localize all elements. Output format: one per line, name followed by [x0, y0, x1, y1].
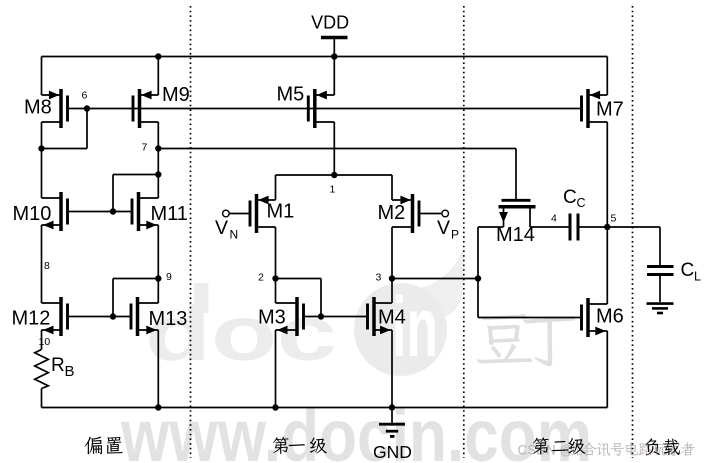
wire M12-M13 gate line — [68, 316, 132, 318]
transistor M5 — [308, 89, 334, 128]
wire node 2 line to mirror gates — [276, 278, 322, 280]
wire M6 source to bottom rail — [606, 331, 608, 408]
terminal VN — [215, 210, 250, 241]
svg-text:M14: M14 — [496, 224, 535, 246]
section label load — [645, 438, 680, 455]
wire node 5 to CL — [607, 226, 660, 228]
svg-text:1: 1 — [330, 184, 336, 196]
svg-text:M3: M3 — [258, 307, 286, 329]
svg-text:9: 9 — [166, 271, 172, 283]
wire right bias rail M9 source — [157, 57, 159, 96]
transistor M13 — [131, 297, 158, 336]
svg-text:M1: M1 — [267, 201, 295, 223]
ground GND — [373, 404, 412, 462]
transistor M7 — [582, 89, 608, 128]
svg-text:M2: M2 — [378, 202, 406, 224]
node 7 — [155, 145, 161, 151]
wire M6 gate line — [478, 317, 582, 319]
wire node 9 line M13 diode connection — [113, 278, 158, 280]
wire M14 source to node 3 junction — [478, 226, 504, 228]
svg-text:8: 8 — [44, 260, 50, 272]
wire M5 source stem — [333, 57, 335, 96]
transistor M4 — [368, 297, 393, 336]
wire CC to node 5 — [580, 226, 608, 228]
junction M8 drain — [38, 145, 44, 151]
wire M4 drain stem — [391, 279, 393, 304]
junction node 3 / M14 / M6 gate — [475, 275, 481, 281]
wire M7 source stem — [606, 57, 608, 96]
svg-text:V: V — [437, 217, 450, 239]
node 6 — [84, 105, 90, 111]
wire M3 source to bottom rail — [275, 330, 277, 408]
transistor M8 — [42, 89, 68, 128]
junction M3 source rail — [272, 404, 278, 410]
node 9 — [155, 275, 161, 281]
svg-text:5: 5 — [611, 213, 617, 225]
wire M5 drain to node 1 — [333, 122, 335, 175]
wire node 6 tap down — [86, 109, 88, 149]
wire left rail M8 drain to M10 — [41, 122, 43, 198]
svg-text:M8: M8 — [24, 97, 52, 119]
svg-text:2: 2 — [258, 272, 264, 284]
junction M3-M4 gates — [318, 313, 324, 319]
svg-text:M5: M5 — [277, 84, 305, 106]
wire node 7 line to M14 gate — [158, 148, 516, 150]
wire M2 source stem — [391, 175, 393, 200]
resistor RB — [35, 350, 75, 389]
node 3 — [389, 275, 395, 281]
wire right bias rail M9 drain node7 to M11 — [157, 122, 159, 198]
wire M11 diode connection — [113, 174, 158, 176]
svg-text:M6: M6 — [596, 306, 624, 328]
wire node 6 tap to M8 drain — [42, 148, 88, 150]
transistor M9 — [133, 89, 158, 128]
wire M7 drain to node 5 and M6 drain — [606, 122, 608, 304]
wire M4 source to bottom rail — [391, 330, 393, 408]
wire M14 drain to CC — [530, 226, 569, 228]
wire node 3 line — [392, 278, 478, 280]
wire M10-M11 gate line — [68, 211, 133, 213]
svg-text:L: L — [694, 270, 701, 284]
divider dotted line 1 — [190, 6, 192, 458]
junction M12-M13 gates — [110, 313, 116, 319]
svg-text:C: C — [577, 196, 586, 210]
transistor M2 — [392, 194, 419, 233]
power VDD — [311, 13, 349, 57]
junction bottom rail M13 — [155, 404, 161, 410]
junction M10-M11 gates — [110, 208, 116, 214]
junction top rail M9 — [155, 53, 161, 59]
svg-text:M12: M12 — [12, 308, 51, 330]
svg-text:M9: M9 — [162, 84, 190, 106]
svg-text:3: 3 — [376, 272, 382, 284]
capacitor CL — [647, 227, 701, 302]
wire ground bottom rail — [42, 407, 608, 409]
junction M11 drain-gate — [155, 171, 161, 177]
svg-text:doc: doc — [145, 291, 337, 377]
wire M1 drain to node 2 — [275, 227, 277, 279]
svg-text:R: R — [51, 355, 65, 376]
wire node 1 line — [276, 174, 393, 176]
wire M1 source stem — [275, 175, 277, 200]
wire RB to bottom rail — [41, 389, 43, 408]
wire VDD top rail — [42, 56, 608, 58]
terminal VP — [419, 210, 459, 241]
transistor M10 — [42, 192, 68, 231]
svg-text:VDD: VDD — [311, 13, 349, 33]
section label first stage — [273, 437, 327, 454]
section label second stage — [533, 437, 586, 454]
svg-text:V: V — [215, 217, 228, 239]
node 2 — [272, 275, 278, 281]
wire M3-M4 gate line — [304, 316, 368, 318]
svg-text:M4: M4 — [378, 307, 406, 329]
wire node 6 gate line M8-M9-M5-M7 — [68, 108, 582, 110]
svg-text:7: 7 — [142, 142, 148, 154]
svg-text:P: P — [451, 228, 459, 242]
wire left rail M8 source — [41, 57, 43, 96]
svg-text:M11: M11 — [151, 203, 188, 225]
wire left rail M10 to M12 — [41, 225, 43, 303]
wire M2 drain to node 3 — [391, 227, 393, 279]
wire left rail M12 to RB — [41, 330, 43, 350]
divider dotted line 2 — [463, 6, 465, 458]
divider dotted line 3 — [632, 6, 634, 458]
svg-text:10: 10 — [39, 336, 51, 348]
transistor M11 — [132, 192, 158, 231]
svg-text:B: B — [65, 363, 75, 380]
svg-text:4: 4 — [551, 213, 557, 225]
svg-text:M10: M10 — [13, 203, 52, 225]
node 1 — [331, 172, 337, 178]
svg-text:6: 6 — [82, 90, 88, 102]
capacitor CC — [563, 187, 586, 241]
ground CL — [647, 304, 674, 313]
svg-text:C: C — [681, 260, 695, 281]
svg-text:M7: M7 — [596, 99, 624, 121]
transistor M6 — [582, 298, 608, 337]
transistor M12 — [42, 297, 68, 336]
svg-text:M13: M13 — [149, 308, 188, 330]
wire right bias rail M11 to M13 — [157, 225, 159, 303]
wire M3 drain stem — [275, 279, 277, 304]
transistor M14 — [499, 200, 536, 227]
svg-text:N: N — [230, 228, 239, 242]
section label bias — [85, 436, 123, 454]
transistor M1 — [250, 194, 276, 233]
junction VDD-rail — [331, 53, 337, 59]
svg-text:GND: GND — [373, 442, 412, 462]
svg-text:C: C — [563, 187, 577, 208]
node 5 — [604, 224, 610, 230]
transistor M3 — [276, 297, 304, 336]
wire right bias rail M13 source to bottom rail — [157, 330, 159, 408]
